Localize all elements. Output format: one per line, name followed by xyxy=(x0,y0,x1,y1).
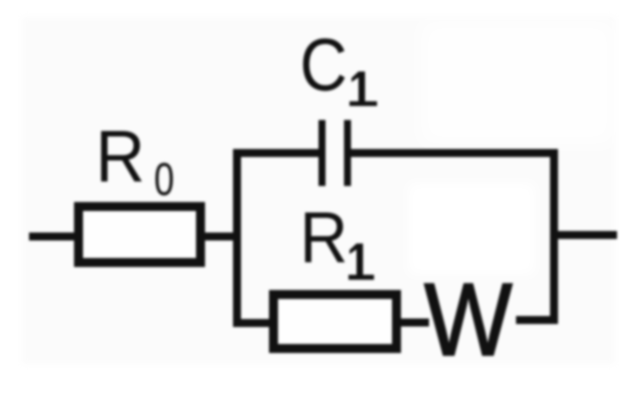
wire top branch right xyxy=(351,149,558,157)
wire top branch left xyxy=(233,149,320,157)
wire input left xyxy=(29,233,78,241)
label R1 subscript 1 xyxy=(349,244,375,280)
wire bottom branch left xyxy=(233,319,273,327)
node A vertical wire xyxy=(233,149,241,327)
label C1 subscript 1 xyxy=(350,72,378,107)
svg-text:W: W xyxy=(424,262,512,377)
resistor R1 xyxy=(274,295,397,349)
wire output right xyxy=(550,231,617,239)
wire right vertical xyxy=(550,149,558,324)
svg-text:R: R xyxy=(96,117,146,199)
svg-text:C: C xyxy=(300,24,348,106)
resistor R0 xyxy=(79,207,201,263)
capacitor C1 right plate xyxy=(344,120,351,186)
svg-text:0: 0 xyxy=(154,153,174,205)
capacitor C1 left plate xyxy=(319,120,326,186)
wire R1 to W xyxy=(397,319,429,327)
svg-text:R: R xyxy=(300,196,348,277)
wire W to corner xyxy=(516,316,554,324)
wire R0 to node A xyxy=(200,233,241,241)
